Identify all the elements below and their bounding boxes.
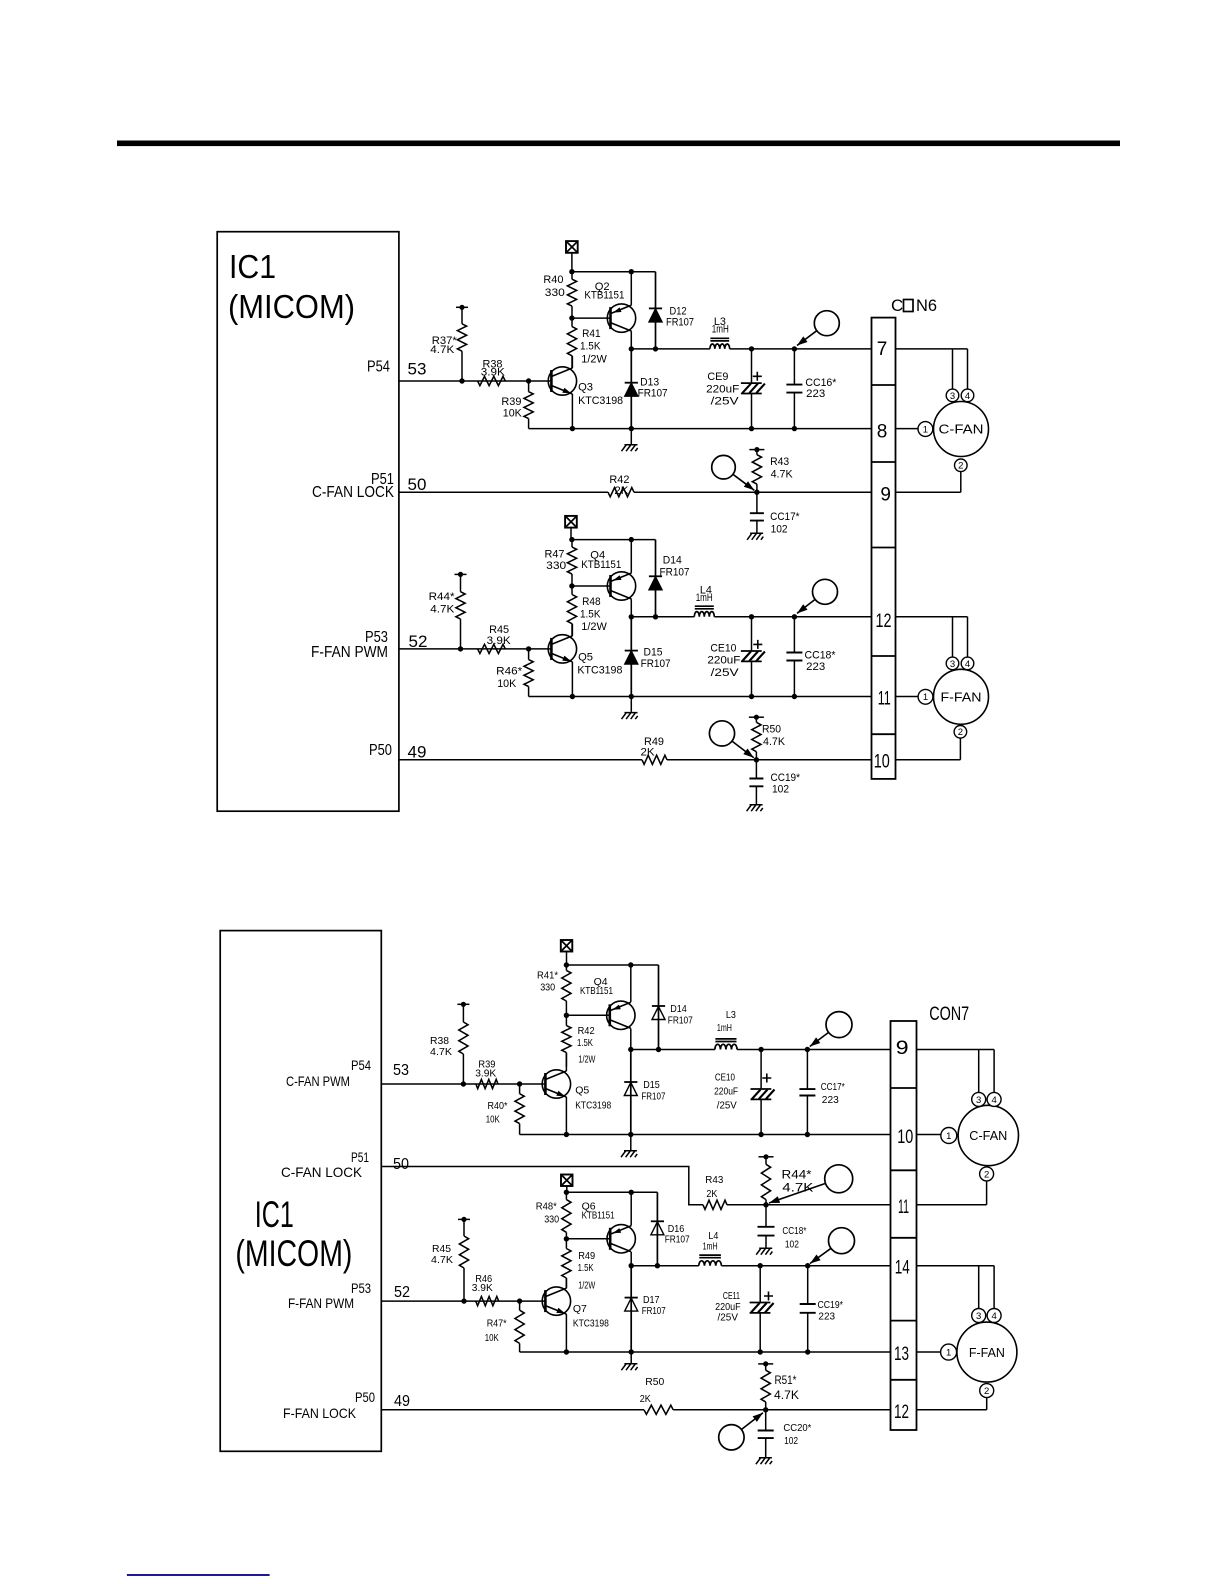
wire supply to rail bot2 — [566, 1186, 568, 1192]
inductor L3b 1mH — [715, 1039, 737, 1050]
svg-text:R41: R41 — [582, 328, 601, 340]
svg-text:FR107: FR107 — [660, 567, 690, 579]
inductor L4 1mH — [694, 606, 714, 617]
transistor Q3 KTC3198 NPN — [548, 367, 576, 395]
wire F-FAN PWM line bottom — [381, 1300, 545, 1302]
svg-text:2K: 2K — [706, 1188, 717, 1200]
svg-text:9: 9 — [896, 1038, 909, 1059]
svg-text:D15: D15 — [643, 1079, 660, 1091]
svg-text:(MICOM): (MICOM) — [228, 288, 355, 325]
svg-text:49: 49 — [394, 1393, 410, 1410]
node rail1b junctions — [570, 426, 575, 431]
test point circle output1 — [797, 311, 839, 346]
svg-text:Q7: Q7 — [573, 1303, 587, 1315]
svg-text:3: 3 — [950, 391, 955, 402]
svg-text:R46*: R46* — [496, 666, 523, 678]
transistor Q6 KTB1151 PNP — [607, 1225, 635, 1253]
wire supply to rail bot1 — [566, 952, 568, 965]
resistor R51b 4.7K — [758, 1361, 799, 1410]
test point circle lock bot2 — [719, 1413, 763, 1450]
resistor R46 pulldown — [496, 646, 533, 696]
svg-text:4: 4 — [991, 1311, 996, 1322]
svg-text:R51*: R51* — [775, 1375, 797, 1387]
svg-text:FR107: FR107 — [666, 317, 694, 329]
wire Q2 emitter to rail — [630, 272, 632, 305]
resistor R46b 3.9K — [472, 1273, 499, 1306]
svg-text:R43: R43 — [705, 1174, 723, 1186]
svg-text:102: 102 — [771, 524, 788, 536]
svg-text:R47: R47 — [545, 549, 565, 561]
svg-text:2K: 2K — [641, 747, 656, 759]
wire P50 line — [399, 759, 642, 761]
wire F-FAN LOCK bottom — [381, 1409, 644, 1411]
svg-text:CON7: CON7 — [929, 1004, 969, 1025]
wire Q6 emitter to rail — [630, 1192, 632, 1225]
wire pin8 to C-FAN 1 — [896, 428, 919, 430]
svg-text:KTB1151: KTB1151 — [582, 1210, 615, 1222]
resistor R49 2K — [641, 736, 668, 764]
svg-text:2K: 2K — [614, 485, 629, 497]
svg-text:223: 223 — [806, 661, 825, 673]
resistor R50 4.7K — [749, 715, 786, 760]
svg-text:KTC3198: KTC3198 — [577, 665, 622, 677]
node base junction Q2 — [569, 315, 574, 320]
svg-text:1.5K: 1.5K — [577, 1037, 593, 1049]
transistor Q5 KTC3198 NPN — [548, 635, 576, 663]
node lock2 junction — [754, 757, 759, 762]
transistor Q7 KTC3198 NPN — [542, 1287, 570, 1315]
svg-text:223: 223 — [822, 1094, 839, 1106]
capacitor CC17b 223 — [799, 1050, 844, 1135]
ground CC20 — [756, 1458, 772, 1465]
transistor Q4b KTB1151 PNP — [607, 1001, 635, 1029]
svg-text:CC17*: CC17* — [821, 1081, 845, 1093]
svg-text:220uF: 220uF — [706, 384, 739, 396]
supply symbol bot2 — [561, 1175, 573, 1187]
svg-text:CC19*: CC19* — [771, 772, 801, 784]
svg-text:CC17*: CC17* — [770, 511, 800, 523]
svg-text:12: 12 — [894, 1402, 909, 1423]
wire C-FAN PWM line bottom — [381, 1083, 546, 1085]
node lock1 junction — [754, 490, 759, 495]
svg-text:R50: R50 — [762, 724, 781, 736]
svg-text:11: 11 — [898, 1197, 909, 1218]
svg-text:3: 3 — [950, 659, 955, 670]
svg-text:R48*: R48* — [536, 1200, 557, 1212]
svg-text:4: 4 — [965, 659, 970, 670]
capacitor CC18b 102 — [758, 1205, 807, 1251]
svg-text:FR107: FR107 — [641, 1091, 665, 1103]
wire Q4 collector to node2 — [630, 599, 632, 617]
svg-text:L3: L3 — [726, 1009, 736, 1021]
resistor R42b 1.5K — [562, 1015, 596, 1067]
motor C-FAN — [918, 389, 989, 472]
capacitor CE10 220uF/25V — [707, 617, 765, 697]
wire Q4 emitter to rail — [630, 540, 632, 573]
svg-text:C-FAN LOCK: C-FAN LOCK — [281, 1164, 363, 1180]
resistor R44 pullup — [429, 572, 467, 649]
motor F-FAN bottom — [941, 1309, 1017, 1398]
supply symbol top2 — [565, 516, 577, 528]
capacitor CE11 220uF/25V — [715, 1266, 774, 1352]
svg-text:F-FAN PWM: F-FAN PWM — [288, 1295, 354, 1311]
svg-text:D14: D14 — [663, 555, 682, 567]
svg-text:CC19*: CC19* — [818, 1299, 844, 1311]
svg-text:P50: P50 — [369, 742, 392, 759]
svg-text:FR107: FR107 — [638, 388, 668, 400]
svg-text:F-FAN: F-FAN — [969, 1345, 1005, 1360]
transistor Q4 KTB1151 PNP — [607, 572, 635, 600]
svg-text:CE9: CE9 — [707, 371, 728, 383]
wire base Q6 — [566, 1238, 609, 1240]
svg-text:52: 52 — [394, 1284, 410, 1301]
supply symbol top1 — [566, 241, 578, 253]
label CON6 — [891, 296, 937, 315]
ground bot2 — [630, 1352, 632, 1363]
svg-text:/25V: /25V — [717, 1099, 737, 1111]
svg-text:KTC3198: KTC3198 — [573, 1317, 609, 1329]
svg-text:2: 2 — [958, 461, 963, 472]
svg-text:330: 330 — [546, 560, 566, 572]
svg-text:1/2W: 1/2W — [578, 1053, 595, 1065]
svg-text:CC18*: CC18* — [805, 650, 837, 662]
wire pin11 to F-FAN 1 — [896, 696, 919, 698]
resistor R40b pulldown 10K — [486, 1081, 525, 1134]
svg-text:KTB1151: KTB1151 — [580, 985, 613, 997]
svg-text:4.7K: 4.7K — [430, 604, 455, 616]
wire top rail bot1 — [566, 964, 658, 966]
wire base Q4b — [566, 1014, 609, 1016]
svg-text:KTC3198: KTC3198 — [575, 1099, 611, 1111]
svg-text:FR107: FR107 — [642, 1305, 666, 1317]
transistor Q5b KTC3198 NPN — [542, 1070, 570, 1098]
motor F-FAN — [918, 657, 988, 738]
wire ground rail bot1 — [520, 1134, 891, 1136]
svg-text:3.9K: 3.9K — [472, 1282, 493, 1294]
svg-text:220uF: 220uF — [707, 655, 740, 667]
svg-text:P54: P54 — [351, 1057, 371, 1073]
test point circle lock bot1 — [769, 1165, 853, 1203]
svg-text:R47*: R47* — [487, 1317, 507, 1329]
svg-text:(MICOM): (MICOM) — [235, 1233, 352, 1274]
svg-text:/25V: /25V — [711, 395, 740, 407]
svg-text:3.9K: 3.9K — [475, 1068, 496, 1080]
resistor R40 — [543, 272, 576, 318]
wire Q5b collector — [565, 1053, 567, 1071]
IC U1 ICI (MICOM) box bottom — [220, 931, 381, 1452]
svg-text:1: 1 — [923, 424, 928, 435]
node base junction Q4b — [564, 1013, 569, 1018]
svg-text:330: 330 — [540, 982, 555, 994]
diode D13 FR107 — [625, 349, 638, 429]
node rail1 junction R40 — [569, 269, 574, 274]
svg-text:53: 53 — [393, 1062, 409, 1079]
svg-text:223: 223 — [806, 388, 825, 400]
resistor R39 pulldown — [501, 378, 533, 428]
node node bot1 junctions — [628, 1047, 633, 1052]
svg-text:1mH: 1mH — [717, 1022, 732, 1034]
wire Q2 collector to node1 — [630, 331, 632, 349]
resistor R48b 330 — [536, 1192, 571, 1239]
wire ground rail 1 — [529, 428, 872, 430]
svg-text:R39: R39 — [501, 396, 521, 408]
ground CC18b — [756, 1248, 772, 1255]
diode D12 FR107 — [649, 272, 662, 349]
motor C-FAN bottom — [941, 1092, 1019, 1181]
diode D16 FR107 — [651, 1192, 664, 1265]
svg-text:R49: R49 — [578, 1250, 595, 1262]
svg-text:P54: P54 — [367, 359, 390, 376]
svg-text:4.7K: 4.7K — [774, 1390, 799, 1402]
inductor L4b 1mH — [699, 1255, 722, 1266]
node R44 junction — [458, 646, 463, 651]
node R45b junction — [461, 1298, 466, 1303]
svg-text:8: 8 — [877, 421, 888, 442]
svg-text:102: 102 — [784, 1435, 798, 1447]
svg-text:4: 4 — [965, 391, 970, 402]
svg-text:330: 330 — [545, 287, 565, 299]
svg-text:R45: R45 — [489, 624, 509, 636]
svg-text:/25V: /25V — [711, 667, 740, 679]
test point circle output bot2 — [810, 1228, 855, 1264]
svg-text:R42: R42 — [578, 1025, 595, 1037]
wire Q3 emitter to ground rail — [571, 394, 573, 429]
wire Q5 collector — [571, 624, 573, 636]
ground CC19 — [747, 805, 763, 812]
wire top rail bot2 — [566, 1191, 657, 1193]
svg-text:/25V: /25V — [718, 1312, 739, 1324]
svg-text:50: 50 — [393, 1156, 409, 1173]
wire C-FAN LOCK line — [399, 491, 608, 493]
svg-text:53: 53 — [408, 360, 427, 379]
wire Q7 emitter to rail — [565, 1314, 567, 1352]
svg-text:1.5K: 1.5K — [578, 1262, 594, 1274]
svg-text:F-FAN LOCK: F-FAN LOCK — [283, 1405, 357, 1421]
svg-text:2: 2 — [984, 1386, 989, 1397]
wire F-FAN 2 to pin12 bottom — [986, 1398, 988, 1410]
svg-text:9: 9 — [880, 484, 891, 505]
ground top2 — [630, 697, 632, 712]
svg-text:Q5: Q5 — [575, 1085, 589, 1097]
wire Q5 emitter to ground rail — [571, 662, 573, 697]
capacitor CC19 102 — [749, 760, 800, 804]
svg-text:CC20*: CC20* — [783, 1422, 811, 1434]
wire C-FAN LOCK bottom — [381, 1167, 703, 1205]
resistor R45b pullup 4.7K — [431, 1217, 470, 1301]
diode D17 FR107 — [625, 1266, 638, 1352]
resistor R43 4.7K — [749, 447, 793, 492]
resistor R49b 1.5K — [562, 1239, 596, 1292]
wire pin13 to F-FAN 1 bottom — [917, 1351, 941, 1353]
wire Q5b emitter to rail — [565, 1097, 567, 1135]
svg-text:R41*: R41* — [537, 970, 558, 982]
svg-text:1/2W: 1/2W — [578, 1280, 595, 1292]
svg-text:7: 7 — [877, 339, 888, 360]
svg-text:IC1: IC1 — [255, 1194, 294, 1235]
resistor R48 — [567, 586, 607, 636]
transistor Q2 KTB1151 PNP — [607, 304, 635, 332]
node lock bot1 junction — [763, 1202, 768, 1207]
svg-text:49: 49 — [408, 743, 427, 762]
wire C-FAN 2 to pin9 — [960, 472, 962, 493]
node rail1 junction Q2 emitter — [629, 269, 634, 274]
svg-text:FR107: FR107 — [668, 1015, 693, 1027]
wire output node bot2 — [631, 1265, 699, 1267]
svg-text:1mH: 1mH — [696, 592, 713, 604]
svg-text:R40: R40 — [543, 274, 563, 286]
svg-text:10: 10 — [897, 1127, 913, 1148]
svg-text:D14: D14 — [670, 1003, 687, 1015]
svg-text:10: 10 — [874, 752, 890, 773]
capacitor CC17 102 — [750, 492, 800, 535]
inductor L3 1mH — [710, 338, 730, 349]
test point circle output bot1 — [810, 1012, 852, 1047]
node R38b junction — [461, 1081, 466, 1086]
svg-text:R43: R43 — [770, 456, 789, 468]
diode D15 FR107 — [625, 617, 638, 697]
wire pin10 to C-FAN 1 bottom — [917, 1134, 941, 1136]
node node2 junctions — [629, 614, 634, 619]
wire output node bot1 — [631, 1049, 715, 1051]
svg-text:Q3: Q3 — [578, 381, 593, 393]
svg-text:F-FAN PWM: F-FAN PWM — [311, 644, 388, 661]
svg-text:50: 50 — [408, 475, 427, 494]
resistor R45 — [478, 624, 512, 654]
svg-text:R40*: R40* — [488, 1100, 508, 1112]
svg-text:1mH: 1mH — [703, 1240, 718, 1252]
svg-text:102: 102 — [772, 784, 789, 796]
svg-text:C-FAN PWM: C-FAN PWM — [286, 1073, 350, 1089]
svg-text:CE10: CE10 — [710, 643, 736, 655]
wire ground rail 2 — [529, 696, 872, 698]
wire base Q2 — [572, 317, 611, 319]
svg-text:FR107: FR107 — [665, 1234, 690, 1246]
node base junction Q4 — [569, 583, 574, 588]
resistor R50b 2K — [640, 1376, 673, 1414]
svg-text:1: 1 — [923, 692, 928, 703]
svg-text:1: 1 — [946, 1348, 951, 1359]
svg-text:3: 3 — [976, 1095, 981, 1106]
wire pin7 to fan terminals — [896, 348, 968, 350]
svg-text:R44*: R44* — [429, 591, 456, 603]
svg-text:4.7K: 4.7K — [431, 1254, 453, 1266]
node base junction Q6 — [564, 1236, 569, 1241]
svg-text:KTB1151: KTB1151 — [584, 290, 624, 302]
svg-text:R44*: R44* — [782, 1170, 813, 1182]
svg-text:223: 223 — [818, 1311, 835, 1323]
svg-text:CE10: CE10 — [715, 1072, 735, 1084]
svg-text:4.7K: 4.7K — [763, 736, 786, 748]
capacitor CE9 220uF/25V — [706, 349, 765, 429]
node lock bot2 junction — [763, 1407, 768, 1412]
svg-text:C-FAN: C-FAN — [969, 1128, 1007, 1143]
svg-text:3: 3 — [976, 1311, 981, 1322]
svg-text:2: 2 — [984, 1169, 989, 1180]
svg-text:Q5: Q5 — [578, 652, 593, 664]
wire pin12 to fan terminals — [896, 616, 968, 618]
IC U1 IC1 (MICOM) box top — [217, 232, 399, 812]
resistor R39b 3.9K — [475, 1059, 498, 1089]
test point circle output2 — [797, 579, 838, 613]
resistor R41b 330 — [537, 965, 571, 1015]
resistor R37 pullup — [430, 305, 468, 381]
wire base Q4 — [572, 585, 611, 587]
svg-text:N6: N6 — [916, 296, 937, 315]
wire output node1 — [631, 348, 710, 350]
ground top1 — [630, 429, 632, 444]
svg-text:10K: 10K — [497, 678, 517, 690]
connector CON6 box — [872, 318, 896, 779]
wire Q6 collector to node — [630, 1252, 632, 1266]
svg-text:14: 14 — [895, 1258, 910, 1279]
diode D15b FR107 — [624, 1050, 637, 1135]
wire F-FAN 2 to pin10 — [959, 738, 961, 760]
svg-text:P50: P50 — [355, 1389, 375, 1405]
svg-text:KTB1151: KTB1151 — [581, 559, 621, 571]
svg-text:102: 102 — [785, 1239, 799, 1251]
wire top rail 1 — [572, 271, 656, 273]
wire top rail 2 — [572, 539, 656, 541]
resistor R42 2K — [608, 474, 634, 497]
svg-text:3.9K: 3.9K — [487, 635, 512, 647]
wire pin14 to fan terminals bottom — [917, 1265, 995, 1267]
connector CON7 box — [891, 1021, 917, 1430]
svg-text:R48: R48 — [582, 596, 601, 608]
svg-text:KTC3198: KTC3198 — [578, 395, 623, 407]
wire C-FAN 2 to pin11 bottom — [986, 1181, 988, 1205]
svg-text:P51: P51 — [351, 1149, 369, 1165]
wire Q4b emitter to rail — [630, 965, 632, 1002]
svg-text:11: 11 — [878, 689, 891, 710]
svg-text:4.7K: 4.7K — [430, 1046, 452, 1058]
svg-text:1.5K: 1.5K — [580, 341, 601, 353]
svg-text:FR107: FR107 — [641, 658, 671, 670]
supply symbol bot1 — [561, 940, 573, 952]
diode D14b FR107 — [652, 965, 665, 1050]
node node1 junctions — [629, 346, 634, 351]
wire P54 pin line 53 — [399, 380, 553, 382]
svg-text:D15: D15 — [644, 647, 663, 659]
resistor R47b pulldown 10K — [485, 1298, 524, 1352]
svg-text:R50: R50 — [645, 1376, 664, 1388]
svg-text:4.7K: 4.7K — [430, 344, 455, 356]
svg-text:1: 1 — [946, 1131, 951, 1142]
capacitor CC19b 223 — [800, 1266, 843, 1352]
svg-text:4.7K: 4.7K — [771, 469, 794, 481]
svg-text:C-FAN: C-FAN — [939, 422, 984, 437]
svg-text:2: 2 — [958, 727, 963, 738]
svg-text:12: 12 — [876, 611, 892, 632]
svg-text:C: C — [891, 296, 903, 315]
wire Q7 collector — [565, 1278, 567, 1288]
svg-text:3.9K: 3.9K — [481, 367, 506, 379]
svg-text:220uF: 220uF — [714, 1086, 738, 1098]
resistor R38b pullup 4.7K — [430, 1002, 469, 1084]
svg-text:330: 330 — [544, 1213, 559, 1225]
svg-text:10K: 10K — [486, 1113, 500, 1125]
svg-text:13: 13 — [894, 1344, 909, 1365]
svg-text:10K: 10K — [503, 408, 523, 420]
node R37 junction — [459, 378, 464, 383]
capacitor CC18 223 — [786, 617, 836, 697]
svg-text:1.5K: 1.5K — [580, 608, 601, 620]
wire P53 pin line 52 — [399, 648, 553, 650]
svg-text:1/2W: 1/2W — [581, 621, 607, 633]
resistor R38 — [478, 359, 506, 386]
capacitor CC16 223 — [786, 349, 837, 429]
wire Q4b collector to node — [630, 1029, 632, 1050]
test point circle lock2 — [709, 721, 753, 758]
